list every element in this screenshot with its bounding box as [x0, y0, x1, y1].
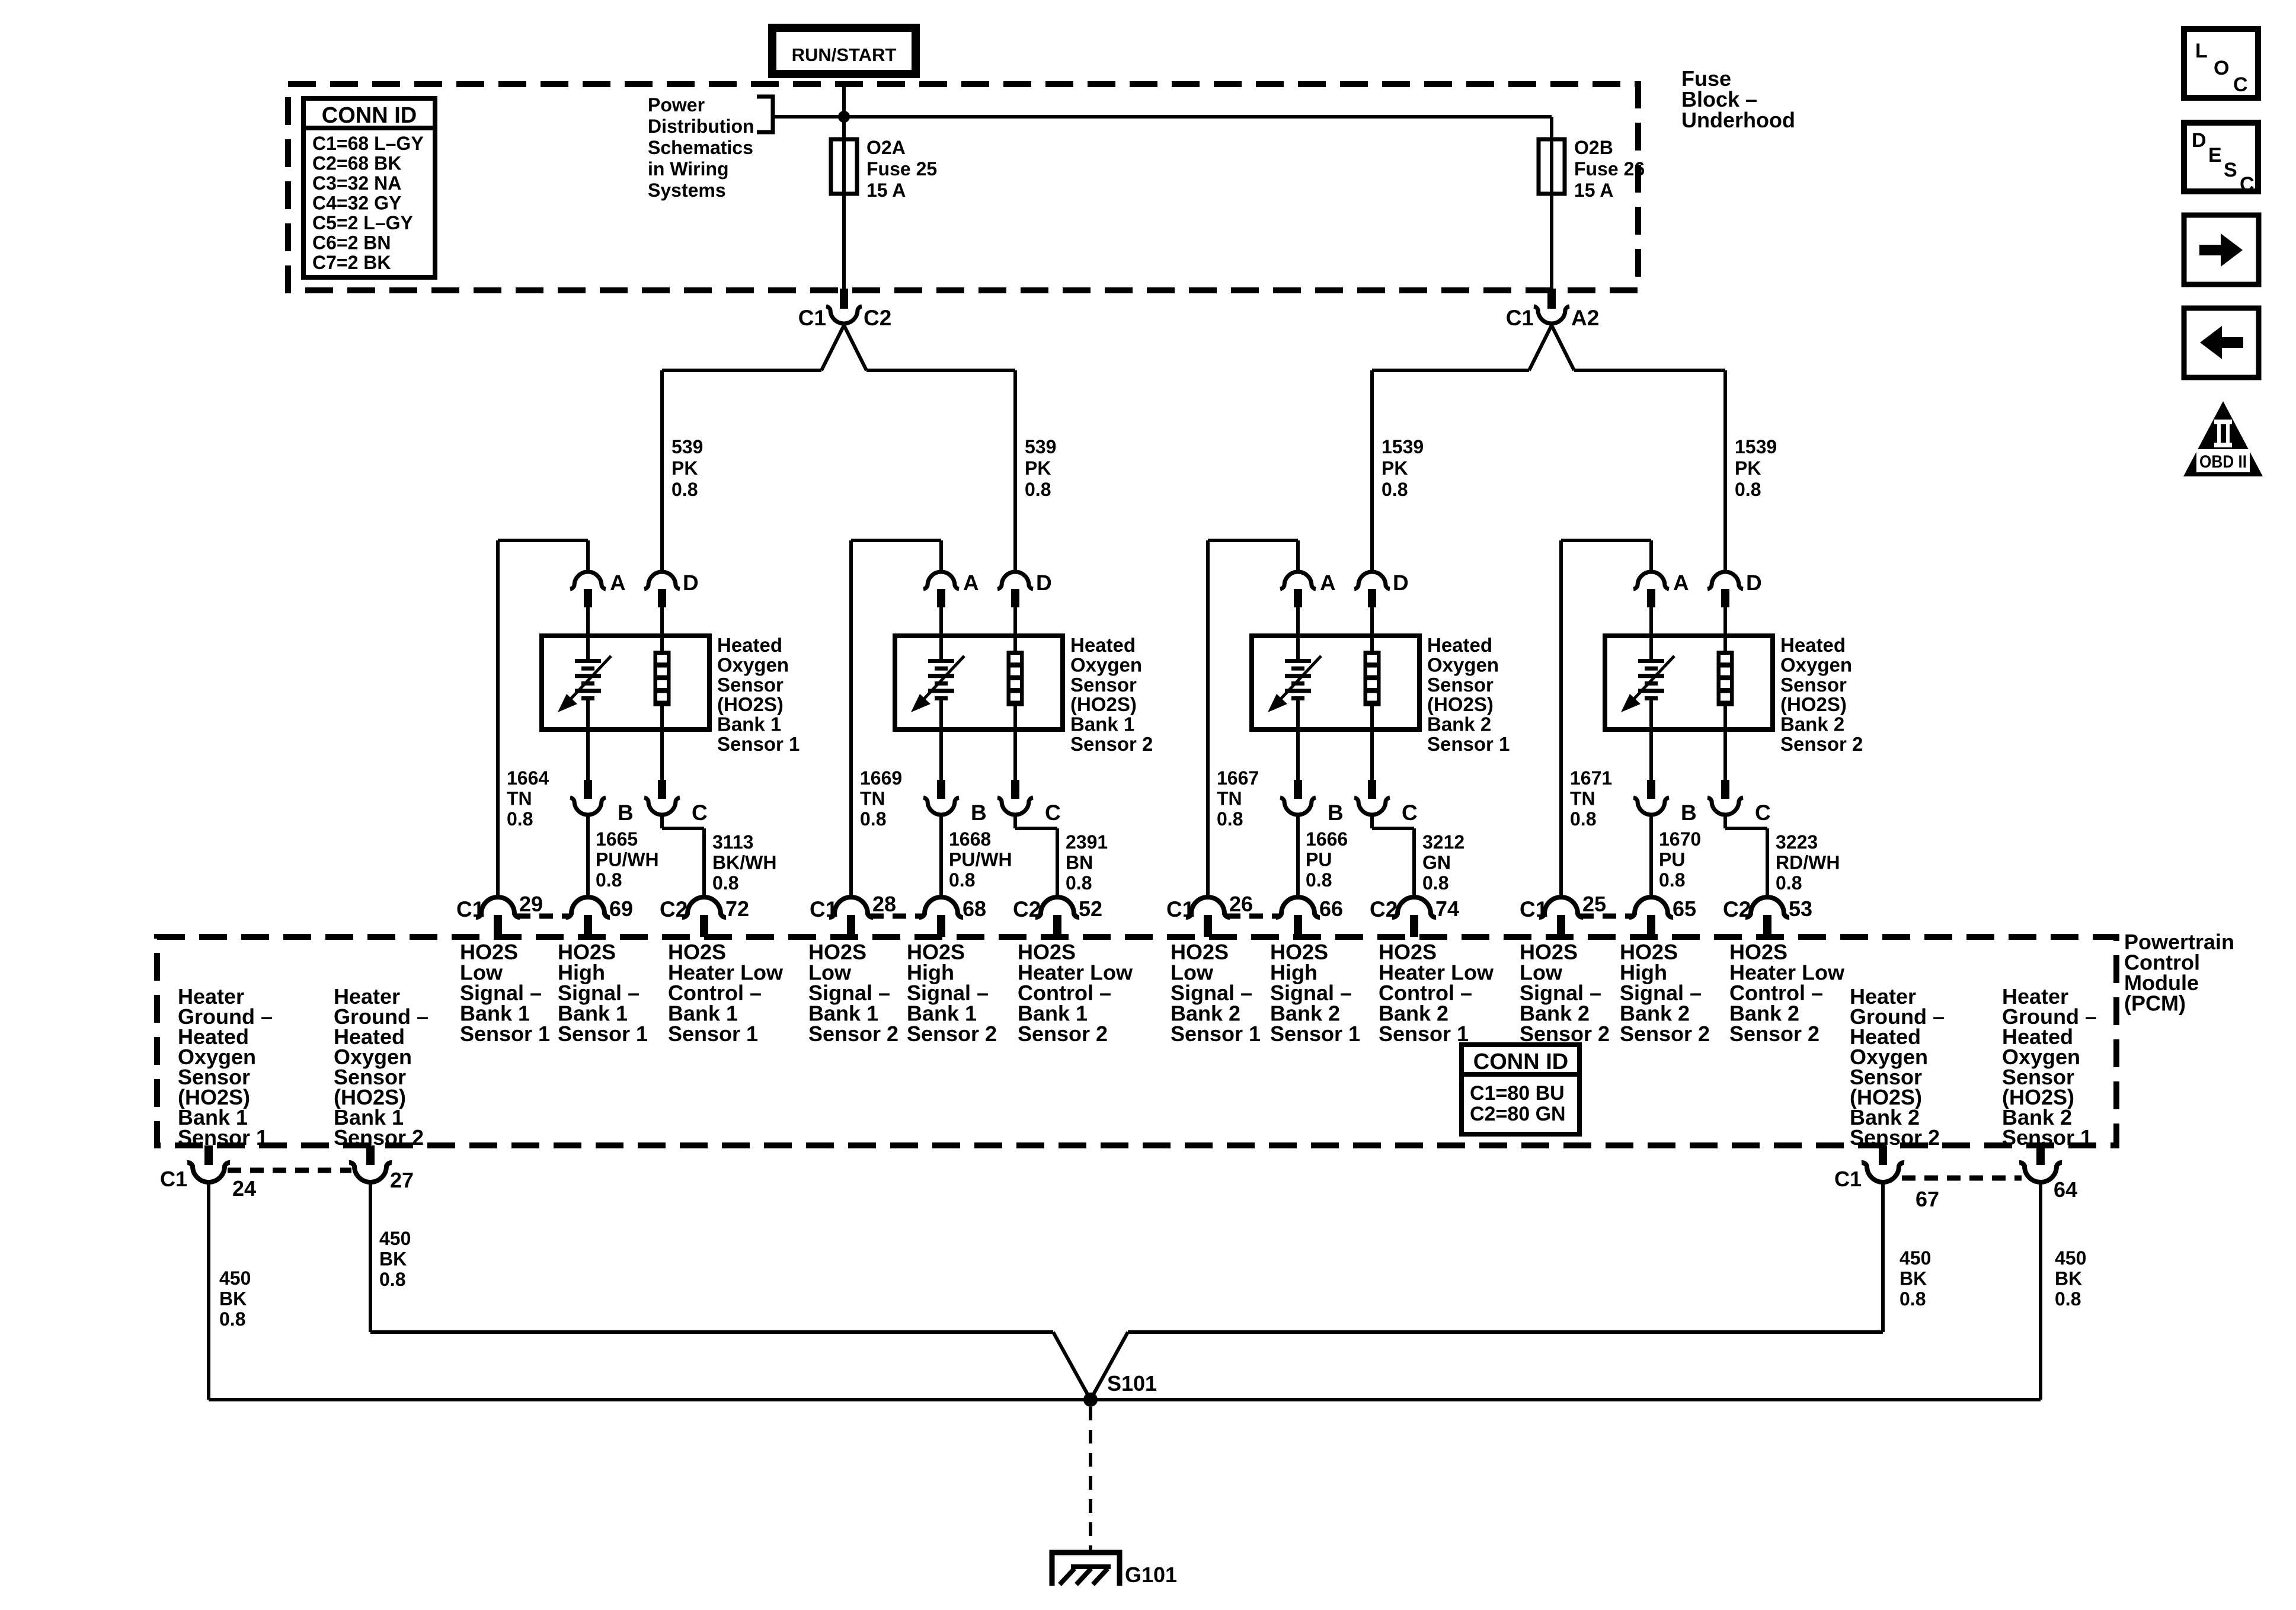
icon arrow right	[2184, 215, 2259, 284]
heater element Bank 1 Sensor 1	[654, 651, 671, 729]
svg-text:Sensor 2: Sensor 2	[1018, 1022, 1108, 1046]
svg-text:D: D	[1746, 571, 1762, 595]
dashed wire S101 to ground	[1089, 1407, 1092, 1550]
PCM pin 72 connector C2	[660, 897, 749, 937]
svg-text:L: L	[2195, 40, 2208, 62]
label Heated Oxygen Sensor (HO2S) Bank 1 Sensor 1	[717, 634, 800, 755]
svg-text:C2: C2	[1013, 897, 1041, 921]
svg-text:O: O	[2214, 57, 2229, 79]
label HO2S Heater Low Control – Bank 1 Sensor 1 (pin 72)	[668, 940, 784, 1046]
switch feed RUN/START	[772, 28, 916, 74]
svg-text:0.8: 0.8	[2055, 1288, 2081, 1310]
svg-text:1669: 1669	[860, 767, 902, 789]
svg-text:B: B	[1681, 801, 1697, 825]
svg-text:Sensor 2: Sensor 2	[1850, 1125, 1940, 1150]
svg-text:0.8: 0.8	[1382, 479, 1408, 500]
svg-text:450: 450	[219, 1267, 251, 1289]
svg-text:Oxygen: Oxygen	[717, 654, 789, 676]
PCM pin 28 connector C1	[810, 892, 896, 937]
sensor pin C Bank 2 Sensor 1	[1354, 729, 1418, 825]
svg-text:D: D	[1393, 571, 1409, 595]
PCM bottom pin 67 connector C1	[1834, 1145, 1939, 1211]
svg-text:C4=32 GY: C4=32 GY	[312, 193, 401, 214]
svg-text:Sensor 1: Sensor 1	[1427, 733, 1510, 755]
svg-text:D: D	[1036, 571, 1052, 595]
svg-text:0.8: 0.8	[860, 808, 886, 830]
svg-text:PU: PU	[1306, 849, 1332, 870]
svg-text:B: B	[618, 801, 634, 825]
wire RUN/START to junction	[842, 82, 846, 117]
svg-text:72: 72	[725, 897, 749, 921]
svg-text:0.8: 0.8	[1900, 1288, 1926, 1310]
svg-text:C: C	[1402, 801, 1418, 825]
svg-text:Sensor: Sensor	[1427, 674, 1494, 696]
svg-text:Heated: Heated	[717, 634, 782, 656]
sensor pin A Bank 2 Sensor 2	[1633, 543, 1689, 659]
label HO2S Low Signal – Bank 2 Sensor 2 (pin 25)	[1520, 940, 1610, 1046]
svg-text:15 A: 15 A	[1574, 180, 1613, 201]
svg-text:15 A: 15 A	[866, 180, 906, 201]
svg-text:0.8: 0.8	[671, 479, 698, 500]
wire fuse O2A output	[842, 194, 846, 289]
svg-text:Systems: Systems	[648, 180, 726, 201]
oxygen sense element (variable battery) Bank 2 Sensor 2	[1621, 656, 1674, 729]
heater element Bank 2 Sensor 2	[1717, 651, 1734, 729]
label HO2S Heater Low Control – Bank 2 Sensor 1 (pin 74)	[1379, 940, 1494, 1046]
svg-text:PU/WH: PU/WH	[596, 849, 659, 870]
svg-text:C2: C2	[864, 306, 891, 330]
sensor pin B Bank 2 Sensor 2	[1633, 729, 1697, 825]
wire 450 BK 0.8 from pin 24	[209, 1184, 1091, 1400]
svg-text:A: A	[963, 571, 979, 595]
svg-text:D: D	[2192, 129, 2207, 152]
svg-text:1539: 1539	[1382, 436, 1424, 457]
HO2S sensor box Bank 2 Sensor 1	[1252, 636, 1419, 729]
label Heater Ground HO2S Bank 1 Sensor 2	[334, 984, 428, 1150]
svg-text:C2: C2	[1370, 897, 1398, 921]
svg-text:C1=80 BU: C1=80 BU	[1470, 1082, 1565, 1105]
svg-text:64: 64	[2054, 1177, 2077, 1202]
icon arrow left	[2184, 308, 2259, 377]
svg-text:450: 450	[379, 1228, 411, 1249]
svg-text:(HO2S): (HO2S)	[1780, 693, 1847, 715]
wire 1670 PU 0.8 (pin B to PCM)	[1651, 815, 1701, 898]
svg-text:TN: TN	[860, 788, 885, 809]
wire 450 BK 0.8 from pin 27	[370, 1184, 1091, 1400]
svg-text:1671: 1671	[1570, 767, 1612, 789]
HO2S sensor box Bank 1 Sensor 1	[542, 636, 709, 729]
PCM pin 53 connector C2	[1723, 897, 1812, 937]
svg-text:539: 539	[1025, 436, 1056, 457]
svg-text:Sensor 2: Sensor 2	[1780, 733, 1863, 755]
svg-text:27: 27	[390, 1168, 414, 1192]
svg-text:Sensor 1: Sensor 1	[460, 1022, 550, 1046]
HO2S sensor box Bank 2 Sensor 2	[1605, 636, 1773, 729]
svg-text:O2A: O2A	[866, 137, 906, 158]
wire 1665 PU/WH 0.8 (pin B to PCM)	[588, 815, 659, 898]
svg-text:25: 25	[1582, 892, 1606, 916]
svg-text:Heated: Heated	[1427, 634, 1492, 656]
dashed connector link pins 26-66	[1227, 914, 1279, 919]
PCM pin 25 connector C1	[1520, 892, 1606, 937]
CONN ID table fuse block	[303, 98, 435, 277]
svg-text:C2: C2	[660, 897, 687, 921]
dashed connector link pins 25-65	[1580, 914, 1632, 919]
svg-text:66: 66	[1319, 897, 1343, 921]
wire fuse O2B output	[1550, 194, 1553, 289]
svg-text:BK: BK	[1900, 1268, 1927, 1289]
svg-text:Oxygen: Oxygen	[1070, 654, 1142, 676]
label Heated Oxygen Sensor (HO2S) Bank 1 Sensor 2	[1070, 634, 1153, 755]
label Power Distribution Schematics in Wiring Systems	[648, 94, 754, 201]
dashed connector link pins 28-68	[870, 914, 922, 919]
label Fuse Block - Underhood	[1681, 66, 1795, 132]
svg-text:in Wiring: in Wiring	[648, 158, 729, 180]
sensor pin D Bank 1 Sensor 1	[644, 571, 699, 651]
svg-text:0.8: 0.8	[1025, 479, 1051, 500]
label Heater Ground HO2S Bank 2 Sensor 2	[1850, 984, 1945, 1150]
ground G101	[1052, 1553, 1177, 1587]
svg-text:0.8: 0.8	[1776, 872, 1802, 894]
svg-text:C6=2 BN: C6=2 BN	[312, 232, 391, 254]
label HO2S High Signal – Bank 2 Sensor 1 (pin 66)	[1270, 940, 1360, 1046]
svg-text:Heated: Heated	[1070, 634, 1136, 656]
svg-text:TN: TN	[1217, 788, 1242, 809]
svg-text:PK: PK	[1382, 457, 1408, 479]
svg-text:Bank 2: Bank 2	[1780, 713, 1844, 735]
svg-text:(PCM): (PCM)	[2124, 991, 2186, 1016]
sensor pin B Bank 1 Sensor 2	[923, 729, 987, 825]
dashed connector link pins 67-64	[1902, 1176, 2022, 1181]
svg-text:Oxygen: Oxygen	[1427, 654, 1499, 676]
svg-text:Bank 1: Bank 1	[717, 713, 781, 735]
wire 450 BK 0.8 from pin 67	[1091, 1184, 1931, 1400]
svg-text:1667: 1667	[1217, 767, 1259, 789]
svg-text:B: B	[971, 801, 987, 825]
svg-text:Sensor 1: Sensor 1	[1171, 1022, 1261, 1046]
svg-text:0.8: 0.8	[1570, 808, 1596, 830]
svg-text:C7=2 BK: C7=2 BK	[312, 252, 391, 273]
sensor pin C Bank 1 Sensor 1	[644, 729, 708, 825]
label HO2S High Signal – Bank 1 Sensor 1 (pin 69)	[558, 940, 648, 1046]
svg-text:Sensor 1: Sensor 1	[1379, 1022, 1469, 1046]
wire 450 BK 0.8 from pin 64	[1091, 1184, 2086, 1400]
svg-text:1668: 1668	[949, 828, 991, 850]
svg-text:0.8: 0.8	[1066, 872, 1092, 894]
icon LOC	[2184, 29, 2258, 98]
svg-text:1664: 1664	[507, 767, 549, 789]
svg-text:A: A	[610, 571, 626, 595]
svg-text:C1: C1	[1506, 306, 1534, 330]
wire 2391 BN 0.8 (pin C to PCM)	[1015, 815, 1108, 898]
svg-text:PK: PK	[1735, 457, 1761, 479]
wire 1539 PK 0.8 to sensor 3 pin D	[1372, 370, 1424, 571]
svg-text:O2B: O2B	[1574, 137, 1613, 158]
svg-text:1665: 1665	[596, 828, 638, 850]
svg-text:Sensor: Sensor	[1780, 674, 1847, 696]
svg-text:C1: C1	[798, 306, 826, 330]
svg-text:Power: Power	[648, 94, 705, 116]
svg-text:26: 26	[1229, 892, 1253, 916]
wire 1666 PU 0.8 (pin B to PCM)	[1298, 815, 1348, 898]
fuse block underhood dashed box	[288, 84, 1638, 290]
svg-text:68: 68	[962, 897, 986, 921]
label Heater Ground HO2S Bank 1 Sensor 1	[178, 984, 273, 1150]
wire bus junction to fuse O2B	[773, 117, 1552, 139]
svg-text:Sensor 2: Sensor 2	[1070, 733, 1153, 755]
wire 1671 TN 0.8 (pin A to PCM)	[1561, 540, 1651, 898]
dashed connector link pins 24-27	[228, 1168, 351, 1173]
svg-text:(HO2S): (HO2S)	[1070, 693, 1137, 715]
sensor pin D Bank 2 Sensor 2	[1707, 571, 1762, 651]
icon DESC	[2184, 123, 2258, 196]
svg-text:Sensor 1: Sensor 1	[178, 1125, 268, 1150]
svg-text:Sensor 1: Sensor 1	[2002, 1125, 2092, 1150]
svg-text:Sensor 1: Sensor 1	[1270, 1022, 1360, 1046]
svg-text:Sensor 1: Sensor 1	[717, 733, 800, 755]
svg-text:BK: BK	[379, 1249, 407, 1270]
junction node	[838, 111, 850, 123]
svg-text:C: C	[2233, 73, 2248, 96]
svg-text:C1: C1	[160, 1167, 187, 1191]
wire 3223 RD/WH 0.8 (pin C to PCM)	[1725, 815, 1840, 898]
icon OBD II	[2183, 401, 2263, 476]
PCM pin 69	[566, 897, 633, 937]
svg-text:(HO2S): (HO2S)	[1427, 693, 1494, 715]
svg-text:C: C	[2240, 173, 2255, 196]
fuse O2B 15A	[1539, 137, 1645, 201]
svg-text:C5=2 L–GY: C5=2 L–GY	[312, 212, 413, 233]
connector C1/C2 at fuse block output	[662, 289, 1015, 370]
svg-text:0.8: 0.8	[949, 869, 975, 891]
svg-text:G101: G101	[1125, 1563, 1177, 1587]
PCM pin 65	[1629, 897, 1696, 937]
oxygen sense element (variable battery) Bank 1 Sensor 1	[558, 656, 611, 729]
svg-text:C: C	[692, 801, 708, 825]
svg-text:TN: TN	[1570, 788, 1595, 809]
svg-text:69: 69	[609, 897, 633, 921]
label HO2S High Signal – Bank 1 Sensor 2 (pin 68)	[907, 940, 997, 1046]
svg-text:CONN ID: CONN ID	[322, 103, 417, 128]
sensor pin B Bank 1 Sensor 1	[570, 729, 634, 825]
svg-text:C1: C1	[1166, 897, 1194, 921]
svg-text:1670: 1670	[1659, 828, 1701, 850]
label HO2S High Signal – Bank 2 Sensor 2 (pin 65)	[1620, 940, 1710, 1046]
svg-text:3223: 3223	[1776, 831, 1818, 853]
svg-text:0.8: 0.8	[1217, 808, 1243, 830]
svg-text:E: E	[2208, 144, 2222, 167]
svg-text:Fuse 26: Fuse 26	[1574, 158, 1645, 180]
svg-text:A2: A2	[1571, 306, 1599, 330]
svg-text:Heated: Heated	[1780, 634, 1846, 656]
bracket power distribution callout	[757, 97, 773, 132]
svg-text:2391: 2391	[1066, 831, 1108, 853]
PCM bottom pin 27	[349, 1145, 414, 1192]
wire 1668 PU/WH 0.8 (pin B to PCM)	[941, 815, 1012, 898]
fuse O2A 15A	[831, 137, 937, 201]
svg-text:C2: C2	[1723, 897, 1751, 921]
svg-text:C: C	[1045, 801, 1061, 825]
CONN ID table PCM	[1462, 1045, 1579, 1134]
svg-text:A: A	[1673, 571, 1689, 595]
wire 539 PK 0.8 to sensor 1 pin D	[662, 370, 703, 571]
oxygen sense element (variable battery) Bank 1 Sensor 2	[911, 656, 964, 729]
PCM pin 26 connector C1	[1166, 892, 1253, 937]
svg-text:Sensor 2: Sensor 2	[1520, 1022, 1610, 1046]
svg-text:28: 28	[872, 892, 896, 916]
svg-text:A: A	[1320, 571, 1336, 595]
sensor pin C Bank 2 Sensor 2	[1707, 729, 1771, 825]
svg-text:0.8: 0.8	[1659, 869, 1685, 891]
svg-text:C1=68 L–GY: C1=68 L–GY	[312, 133, 424, 154]
wire junction to fuse O2A	[842, 117, 846, 139]
svg-text:1666: 1666	[1306, 828, 1348, 850]
svg-text:3212: 3212	[1422, 831, 1464, 853]
svg-text:Sensor 1: Sensor 1	[668, 1022, 758, 1046]
sensor pin D Bank 2 Sensor 1	[1354, 571, 1409, 651]
svg-text:GN: GN	[1422, 852, 1451, 873]
wire 1539 PK 0.8 to sensor 4 pin D	[1725, 370, 1777, 571]
svg-text:S101: S101	[1107, 1371, 1157, 1395]
svg-text:Underhood: Underhood	[1681, 108, 1795, 132]
svg-text:Sensor 2: Sensor 2	[808, 1022, 898, 1046]
Powertrain Control Module dashed box	[157, 937, 2116, 1145]
svg-text:74: 74	[1435, 897, 1459, 921]
svg-text:PK: PK	[671, 457, 698, 479]
svg-text:RUN/START: RUN/START	[792, 44, 897, 65]
svg-text:TN: TN	[507, 788, 532, 809]
svg-text:S: S	[2224, 159, 2237, 181]
svg-text:0.8: 0.8	[1735, 479, 1761, 500]
svg-text:PU/WH: PU/WH	[949, 849, 1012, 870]
svg-text:OBD II: OBD II	[2199, 452, 2247, 472]
svg-text:BK: BK	[2055, 1268, 2082, 1289]
svg-text:450: 450	[2055, 1247, 2086, 1269]
label HO2S Heater Low Control – Bank 1 Sensor 2 (pin 52)	[1018, 940, 1133, 1046]
svg-text:450: 450	[1900, 1247, 1931, 1269]
svg-text:29: 29	[519, 892, 543, 916]
wire 1667 TN 0.8 (pin A to PCM)	[1208, 540, 1298, 898]
PCM pin 52 connector C2	[1013, 897, 1102, 937]
svg-text:Sensor: Sensor	[717, 674, 784, 696]
sensor pin B Bank 2 Sensor 1	[1280, 729, 1344, 825]
svg-text:0.8: 0.8	[596, 869, 622, 891]
svg-text:Fuse 25: Fuse 25	[866, 158, 937, 180]
dashed connector link pins 29-69	[517, 914, 569, 919]
oxygen sense element (variable battery) Bank 2 Sensor 1	[1268, 656, 1321, 729]
svg-text:RD/WH: RD/WH	[1776, 852, 1840, 873]
svg-text:Sensor 2: Sensor 2	[1620, 1022, 1710, 1046]
svg-text:(HO2S): (HO2S)	[717, 693, 784, 715]
PCM bottom pin 64	[2019, 1145, 2077, 1202]
svg-text:0.8: 0.8	[712, 872, 738, 894]
label Heated Oxygen Sensor (HO2S) Bank 2 Sensor 1	[1427, 634, 1510, 755]
svg-text:C1: C1	[1834, 1167, 1862, 1191]
splice S101	[1083, 1371, 1157, 1407]
svg-text:C: C	[1755, 801, 1771, 825]
PCM pin 68	[919, 897, 986, 937]
svg-text:Bank 1: Bank 1	[1070, 713, 1134, 735]
PCM pin 66	[1276, 897, 1343, 937]
svg-text:3113: 3113	[712, 831, 753, 853]
svg-text:67: 67	[1916, 1187, 1939, 1211]
label Heater Ground HO2S Bank 2 Sensor 1	[2002, 984, 2097, 1150]
svg-text:BK/WH: BK/WH	[712, 852, 776, 873]
label HO2S Low Signal – Bank 2 Sensor 1 (pin 26)	[1171, 940, 1261, 1046]
sensor pin A Bank 2 Sensor 1	[1280, 543, 1336, 659]
svg-text:1539: 1539	[1735, 436, 1777, 457]
svg-text:24: 24	[232, 1176, 256, 1201]
svg-text:PU: PU	[1659, 849, 1685, 870]
svg-text:Oxygen: Oxygen	[1780, 654, 1852, 676]
svg-text:0.8: 0.8	[1422, 872, 1448, 894]
svg-text:0.8: 0.8	[1306, 869, 1332, 891]
PCM pin 29 connector C1	[456, 892, 543, 937]
svg-text:C2=80 GN: C2=80 GN	[1470, 1103, 1566, 1125]
svg-text:C1: C1	[810, 897, 837, 921]
wire 3212 GN 0.8 (pin C to PCM)	[1372, 815, 1464, 898]
svg-text:BK: BK	[219, 1288, 247, 1310]
HO2S sensor box Bank 1 Sensor 2	[895, 636, 1063, 729]
label HO2S Heater Low Control – Bank 2 Sensor 2 (pin 53)	[1729, 940, 1845, 1046]
svg-text:CONN ID: CONN ID	[1473, 1049, 1568, 1074]
svg-text:Sensor: Sensor	[1070, 674, 1137, 696]
wire 1669 TN 0.8 (pin A to PCM)	[851, 540, 941, 898]
svg-text:53: 53	[1789, 897, 1812, 921]
svg-text:Sensor 2: Sensor 2	[1729, 1022, 1819, 1046]
svg-text:0.8: 0.8	[219, 1308, 245, 1330]
sensor pin C Bank 1 Sensor 2	[997, 729, 1061, 825]
svg-text:C3=32 NA: C3=32 NA	[312, 172, 401, 194]
sensor pin A Bank 1 Sensor 2	[923, 543, 979, 659]
label Heated Oxygen Sensor (HO2S) Bank 2 Sensor 2	[1780, 634, 1863, 755]
heater element Bank 1 Sensor 2	[1007, 651, 1024, 729]
PCM pin 74 connector C2	[1370, 897, 1459, 937]
svg-text:Sensor 1: Sensor 1	[558, 1022, 648, 1046]
svg-text:PK: PK	[1025, 457, 1051, 479]
label HO2S Low Signal – Bank 1 Sensor 2 (pin 28)	[808, 940, 898, 1046]
wire 539 PK 0.8 to sensor 2 pin D	[1015, 370, 1056, 571]
svg-text:0.8: 0.8	[507, 808, 533, 830]
label Powertrain Control Module (PCM)	[2124, 930, 2234, 1016]
wire 3113 BK/WH 0.8 (pin C to PCM)	[662, 815, 776, 898]
wire 1664 TN 0.8 (pin A to PCM)	[498, 540, 588, 898]
svg-text:B: B	[1328, 801, 1344, 825]
svg-text:539: 539	[671, 436, 703, 457]
svg-text:D: D	[683, 571, 699, 595]
PCM bottom pin 24 connector C1	[160, 1145, 256, 1201]
heater element Bank 2 Sensor 1	[1364, 651, 1381, 729]
svg-text:Sensor 2: Sensor 2	[334, 1125, 424, 1150]
svg-text:Schematics: Schematics	[648, 137, 753, 158]
svg-text:C1: C1	[456, 897, 484, 921]
svg-text:65: 65	[1673, 897, 1696, 921]
svg-text:52: 52	[1079, 897, 1102, 921]
sensor pin D Bank 1 Sensor 2	[997, 571, 1052, 651]
svg-text:Distribution: Distribution	[648, 116, 754, 137]
svg-text:BN: BN	[1066, 852, 1093, 873]
label HO2S Low Signal – Bank 1 Sensor 1 (pin 29)	[460, 940, 550, 1046]
svg-text:Bank 2: Bank 2	[1427, 713, 1491, 735]
sensor pin A Bank 1 Sensor 1	[570, 543, 626, 659]
connector C1/A2 at fuse block output	[1372, 289, 1725, 370]
svg-text:0.8: 0.8	[379, 1269, 405, 1290]
svg-text:C2=68 BK: C2=68 BK	[312, 153, 401, 174]
svg-text:C1: C1	[1520, 897, 1547, 921]
svg-text:Sensor 2: Sensor 2	[907, 1022, 997, 1046]
